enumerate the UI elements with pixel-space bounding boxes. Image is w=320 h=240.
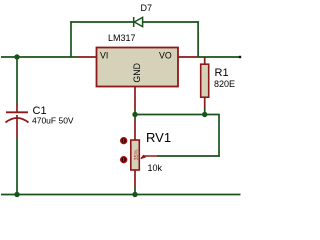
wire: GND node vertical green [134, 110, 136, 120]
node: output wire end tip [239, 56, 241, 58]
junction dot input/C1 [14, 54, 19, 59]
svg-text:LM317: LM317 [108, 33, 136, 43]
wire: riser from input rail up to diode line [70, 21, 72, 57]
wire: adj horizontal [135, 114, 219, 116]
capacitor C1 top pin [16, 104, 18, 112]
svg-text:D7: D7 [141, 3, 153, 13]
wire: ground rail bottom [1, 194, 241, 196]
svg-text:10k: 10k [148, 163, 163, 173]
diode D7 [134, 17, 143, 27]
button RV1 down [121, 157, 127, 163]
svg-text:R1: R1 [215, 67, 229, 79]
wire: right vertical down to wiper [218, 114, 220, 157]
svg-text:VO: VO [159, 51, 172, 61]
wire: R1 bottom to adj rail [204, 107, 206, 115]
svg-text:820E: 820E [214, 79, 235, 89]
resistor R1 top pin [204, 58, 206, 65]
pin GND stub [134, 87, 136, 111]
junction dot R1/adj [202, 112, 207, 117]
svg-text:GND: GND [132, 63, 142, 83]
button RV1 up [121, 138, 127, 144]
svg-text:35%: 35% [134, 149, 140, 160]
potentiometer RV1 wiper arrow [141, 156, 157, 158]
junction dot C1/ground [14, 192, 19, 197]
pin VI stub [77, 56, 97, 58]
resistor R1 bottom pin [204, 97, 206, 107]
svg-text:RV1: RV1 [146, 130, 171, 145]
wire: top horizontal to diode cathode [70, 21, 133, 23]
wire: down to C1 [16, 57, 18, 105]
wire: input rail left at y=57 [1, 56, 77, 58]
junction dot RV1/ground [132, 192, 137, 197]
pin VO stub [178, 56, 197, 58]
potentiometer RV1 top pin [134, 120, 136, 140]
wire: wiper horizontal [157, 155, 220, 157]
svg-text:VI: VI [100, 51, 108, 61]
svg-text:470uF 50V: 470uF 50V [32, 116, 74, 126]
wire: pot bottom to ground rail [134, 187, 136, 195]
wire: right corner down to output rail [197, 21, 199, 57]
wire: output rail right [197, 56, 241, 58]
capacitor C1 plates [6, 112, 29, 122]
regulator U1 LM317 body [97, 48, 179, 87]
wire: C1 to ground rail [16, 137, 18, 195]
potentiometer RV1 body [131, 140, 140, 170]
wire: diode anode to right corner [143, 21, 199, 23]
potentiometer RV1 bottom pin [134, 170, 136, 187]
junction dot GND/adj [132, 112, 137, 117]
capacitor C1 bottom pin [16, 115, 18, 137]
resistor R1 body [201, 64, 209, 97]
